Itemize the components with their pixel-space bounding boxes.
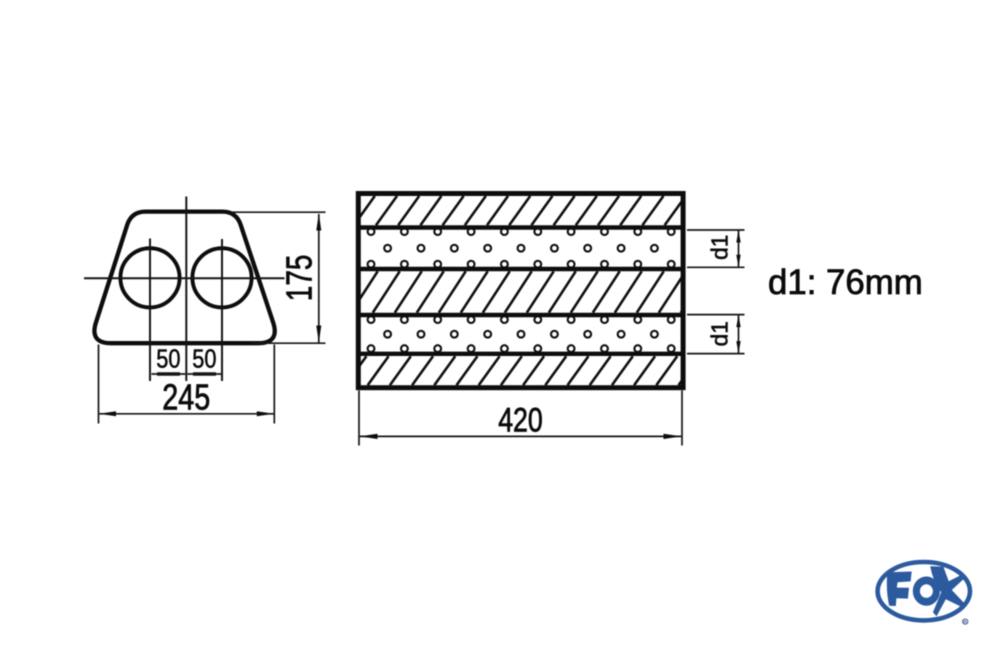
extension line right (245 dim): [273, 345, 275, 424]
dimension line 175: [318, 214, 320, 343]
inner separator line A: [356, 225, 686, 229]
dimension line 50 right: [187, 373, 221, 375]
horizontal centerline: [84, 277, 285, 279]
hatch middle band: [358, 271, 685, 312]
dimension line 245: [99, 413, 273, 415]
extension line d1 bottom band lower: [687, 353, 745, 355]
dimension line 420: [360, 435, 682, 437]
dimension line d1 top: [738, 230, 740, 267]
inner separator line B: [356, 267, 686, 271]
hatch bottom band: [358, 356, 685, 385]
left tube hole circle: [120, 248, 179, 307]
perforation dots band 1: [368, 228, 675, 267]
hatch top band: [358, 196, 685, 225]
logo ellipse: [878, 562, 970, 620]
inner separator line D: [356, 352, 686, 356]
dimension line 50 left: [152, 373, 186, 375]
svg-text:d1: d1: [707, 235, 733, 260]
vertical centerline middle: [185, 197, 187, 382]
svg-text:d1: 76mm: d1: 76mm: [768, 263, 923, 302]
extension line top (175 dim): [231, 211, 326, 213]
svg-text:d1: d1: [707, 321, 733, 346]
muffler body rectangle: [358, 194, 683, 388]
extension line bottom (175 dim): [252, 342, 326, 344]
letter X: [930, 566, 965, 616]
svg-text:175: 175: [279, 255, 320, 302]
registered mark: [963, 619, 968, 624]
vertical centerline right circle: [221, 239, 223, 381]
extension line d1 top band lower: [687, 266, 745, 268]
inner separator line C: [356, 313, 686, 317]
muffler body outline (rounded trapezoid): [94, 212, 274, 344]
vertical centerline left circle: [149, 239, 151, 382]
extension line d1 top band upper: [687, 229, 745, 231]
svg-text:50: 50: [192, 345, 216, 373]
extension line right (420 dim): [681, 391, 683, 446]
extension line left (245 dim): [98, 345, 100, 424]
extension line left (420 dim): [358, 391, 360, 446]
letter O: [913, 577, 940, 606]
svg-text:245: 245: [162, 376, 210, 417]
extension line d1 bottom band upper: [687, 314, 745, 316]
right tube hole circle: [192, 248, 251, 307]
letter F: [887, 572, 912, 607]
perforation dots band 2: [368, 316, 675, 352]
svg-text:50: 50: [156, 345, 180, 373]
dimension line d1 bottom: [738, 315, 740, 354]
svg-text:420: 420: [498, 401, 543, 439]
